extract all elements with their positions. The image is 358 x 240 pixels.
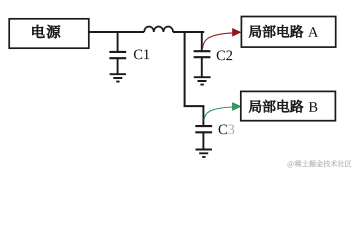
current-flow arrow to circuit A (red) [203, 29, 241, 49]
capacitor C2 [194, 32, 211, 77]
label C1 [134, 49, 149, 59]
local circuit B box [241, 91, 336, 120]
ground (below C2) [194, 77, 211, 84]
ground (below C3) [196, 150, 212, 157]
power source box [9, 19, 89, 48]
label C2 [217, 50, 232, 60]
label 电源 (power source) [32, 25, 60, 38]
inductor (filter choke) [144, 26, 173, 32]
wire: branch B horizontal segment [184, 105, 205, 107]
wire: main horizontal from source box to node C2 [89, 31, 204, 33]
ground (below C1) [110, 74, 126, 81]
capacitor C1 [109, 32, 126, 74]
label 局部电路 A [249, 25, 318, 38]
label C3 [219, 124, 235, 134]
capacitor C3 [195, 106, 212, 149]
current-flow arrow to circuit B (green) [204, 103, 241, 121]
label 局部电路 B [249, 100, 317, 113]
wire: vertical branch down to circuit B row [184, 31, 186, 106]
watermark 稀土掘金技术社区 [288, 160, 352, 167]
local circuit A box [241, 17, 335, 48]
